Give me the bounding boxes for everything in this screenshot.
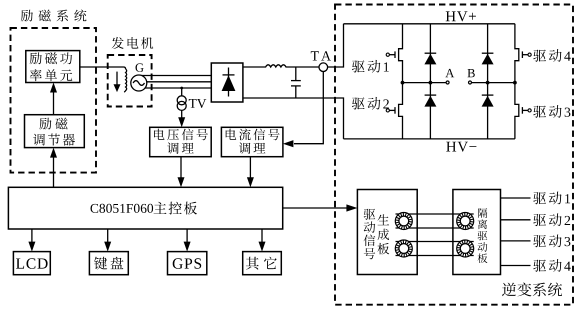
terminal B (469, 81, 472, 84)
wire+arrow: main board up to regulator (53, 156, 55, 187)
block: rectifier bridge box (211, 63, 243, 102)
block: GPS (168, 252, 207, 275)
wires: pulse transformer links (396, 213, 474, 215)
node: TV tap junction (180, 87, 183, 90)
filter capacitor (295, 67, 297, 81)
transistor Q1 (top-left, drive1) (399, 24, 403, 83)
block: keyboard 键盘 (89, 252, 128, 275)
wire+arrow: TV down to voltage conditioning (181, 110, 183, 118)
wire+arrow: current cond to main board (249, 157, 251, 179)
transistor Q4 (top-right, drive4) (515, 24, 519, 83)
transformer TV (two circles) (177, 96, 186, 105)
terminal A (446, 81, 449, 84)
block: current signal conditioning 电流信号调理 (221, 127, 283, 156)
wire+arrow: main board to drive signal board (283, 207, 347, 209)
wire: HV+ top rail (344, 23, 515, 25)
wire: DC+ rail with filter inductor (243, 24, 344, 67)
transistor Q2 (bottom-left, drive2) (399, 83, 403, 139)
3-phase output wires (139, 75, 212, 77)
transistor Q3 (bottom-right, drive3) (515, 83, 519, 139)
wire+arrow: voltage cond to main board (180, 157, 182, 179)
wire: phase node A line (403, 82, 447, 84)
diode symbol inside rectifier (228, 68, 230, 97)
block: drive signal generation board 驱动信号生成板 (357, 190, 417, 275)
diode leg D3/D4 (right) (487, 24, 489, 139)
junction dots on phase lines (401, 81, 405, 85)
drive outputs 驱动1-4 (501, 197, 531, 199)
block: excitation power unit 励磁功率单元 (26, 51, 80, 83)
block: excitation regulator 励磁调节器 (25, 115, 85, 148)
label: inverter system 逆变系统 (502, 283, 562, 297)
wire: power unit to generator field coil (80, 67, 126, 69)
pulse transformer core T4 (457, 240, 474, 257)
label: excitation system 励磁系统 (21, 10, 87, 22)
pulse transformer core T1 (395, 213, 412, 230)
wire: tap down to TV (181, 88, 183, 96)
block: C8051F060 main control board (8, 187, 282, 229)
wire: phase node B line (472, 82, 515, 84)
label: generator 发电机 (112, 37, 154, 49)
current transformer TA (319, 63, 328, 72)
block: voltage signal conditioning 电压信号调理 (150, 127, 212, 156)
net label HV- (446, 142, 476, 152)
field winding coil (124, 69, 127, 92)
wire+arrow: TA to current conditioning (294, 72, 323, 144)
diode leg D1/D2 (left) (429, 24, 431, 139)
block: other 其它 (243, 252, 282, 275)
dashed box: inverter system boundary (335, 5, 573, 305)
wires+arrows: main board to peripherals (31, 229, 33, 243)
wire+arrow: regulator to power unit (53, 91, 55, 115)
wire: HV- bottom rail (344, 138, 515, 140)
generator symbol G (circle with sine) (131, 75, 147, 91)
net label HV+ (446, 11, 476, 21)
field current arrow (116, 72, 118, 85)
pulse transformer core T3 (457, 213, 474, 230)
pulse transformer core T2 (395, 240, 412, 257)
wire: DC- rail (243, 98, 344, 139)
block: isolated drive board 隔离驱动板 (453, 190, 501, 275)
dashed box: excitation system boundary (11, 28, 97, 173)
block: LCD (13, 252, 50, 275)
dashed box: generator boundary (108, 55, 152, 107)
